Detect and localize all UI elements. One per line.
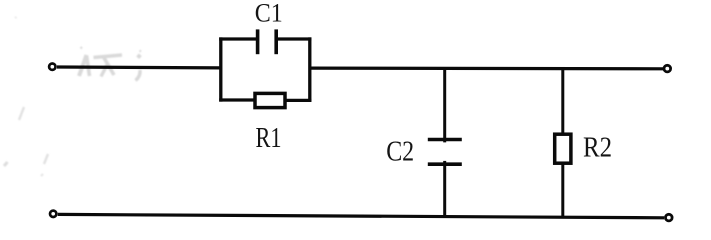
wire: C2 top lead from top rail junction <box>443 68 446 142</box>
wire: block bottom branch, right of R1 <box>285 99 312 102</box>
svg-text:C2: C2 <box>386 137 414 168</box>
terminal TL <box>49 63 55 69</box>
svg-text:C1: C1 <box>255 0 283 28</box>
wire: bottom rail, BL terminal to BR terminal <box>58 214 664 217</box>
svg-text:R1: R1 <box>256 123 282 154</box>
wire: R2 bottom lead to bottom rail junction <box>561 163 564 217</box>
wire: C2 bottom lead to bottom rail junction <box>443 161 446 217</box>
capacitor C1 right plate <box>274 29 278 54</box>
wire: block left vertical riser <box>219 37 222 101</box>
svg-text:R2: R2 <box>583 132 612 164</box>
terminal BR <box>666 214 673 221</box>
capacitor C2 bottom plate <box>428 162 462 166</box>
wire: top rail, TL terminal to block left <box>57 65 221 69</box>
resistor R2 body <box>555 134 571 163</box>
terminal TR <box>664 65 671 72</box>
wire: R2 top lead from top rail junction <box>561 69 564 135</box>
wire: top rail, block right to TR terminal <box>310 66 664 70</box>
wire: block right vertical riser <box>308 37 311 101</box>
wire: block bottom branch, left of R1 <box>219 98 255 101</box>
terminal BL <box>50 211 56 217</box>
capacitor C1 left plate <box>256 29 260 54</box>
wire: block top branch, left of C1 <box>219 37 257 40</box>
capacitor C2 top plate <box>428 138 462 142</box>
resistor R1 body <box>255 93 285 107</box>
wire: block top branch, right of C1 <box>276 37 311 40</box>
